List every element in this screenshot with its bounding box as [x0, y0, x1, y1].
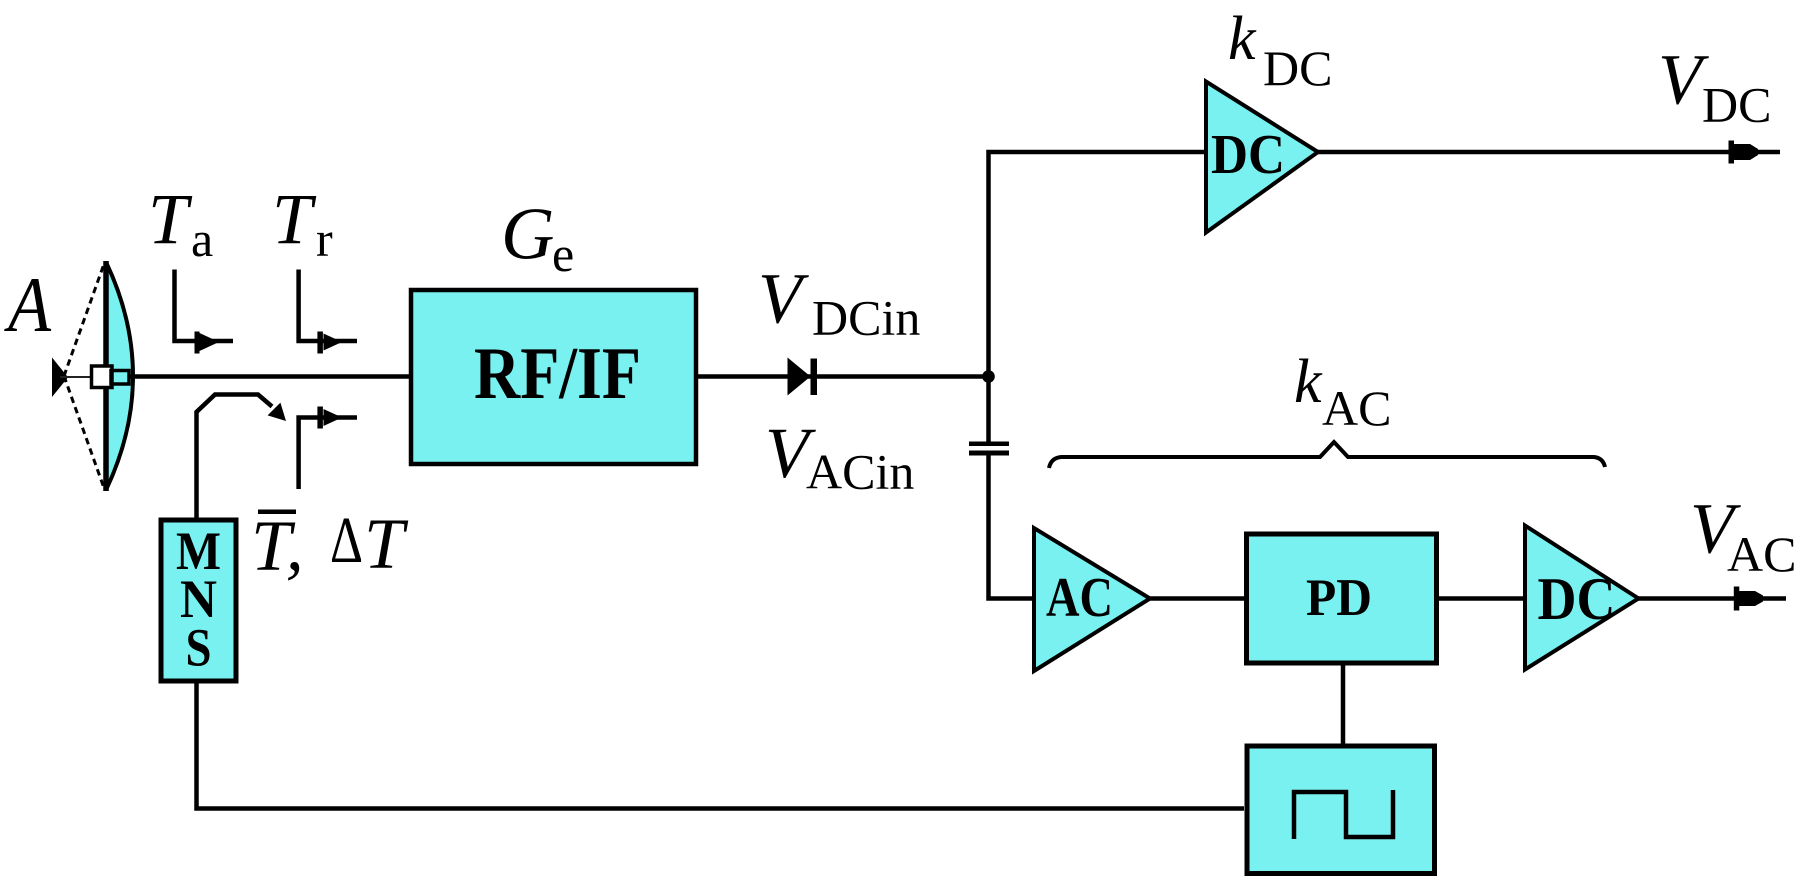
block PD — [1247, 534, 1437, 663]
wire feedback modulator to MNS — [197, 683, 1245, 809]
svg-text:DC: DC — [1538, 566, 1616, 632]
svg-text:V: V — [758, 259, 809, 339]
antenna feed square — [92, 366, 113, 388]
wire capacitor to AC amp — [989, 456, 1037, 599]
brace kAC — [1049, 442, 1605, 468]
output arrow VDC — [1729, 141, 1735, 164]
Tbar injection wire — [299, 418, 357, 490]
wire AC to PD — [1150, 596, 1244, 601]
wire main line antenna to RF/IF — [129, 374, 409, 379]
wire PD to DC amp — [1438, 596, 1525, 601]
Ta injection arrow — [195, 332, 200, 354]
svg-text:e: e — [552, 226, 574, 282]
svg-text:T: T — [364, 504, 409, 584]
svg-text:RF/IF: RF/IF — [474, 333, 641, 415]
svg-text:AC: AC — [1322, 380, 1391, 436]
block RF/IF — [411, 290, 696, 464]
diode D1 — [788, 358, 811, 396]
antenna feed line — [60, 376, 95, 378]
svg-text:T: T — [272, 179, 317, 259]
node junction — [982, 370, 995, 383]
svg-text:AC: AC — [1727, 526, 1796, 582]
svg-text:k: k — [1228, 5, 1257, 73]
Tr injection wire — [299, 270, 357, 342]
op-amp DC top — [1206, 82, 1318, 233]
Tbar injection arrow — [317, 407, 323, 429]
wire MNS bent arrow — [197, 395, 273, 521]
wire RF/IF to diode — [698, 374, 989, 379]
svg-text:r: r — [316, 211, 333, 267]
antenna focal dashed lines — [64, 264, 104, 376]
svg-text:ACin: ACin — [806, 444, 914, 500]
capacitor C1 — [969, 442, 1009, 447]
antenna feed triangle — [52, 358, 68, 398]
svg-text:AC: AC — [1046, 567, 1113, 629]
antenna dish — [106, 262, 133, 490]
wire DC amp to VAC output — [1639, 596, 1787, 601]
svg-text:A: A — [3, 261, 51, 348]
svg-text:T,: T, — [251, 505, 304, 585]
wire PD down to modulator — [1341, 666, 1346, 745]
Ta injection wire — [175, 270, 234, 342]
label Tbar, deltaT — [258, 510, 296, 515]
block MNS — [161, 520, 236, 681]
svg-text:PD: PD — [1306, 569, 1372, 627]
wire node up and to DC output — [989, 152, 1781, 377]
svg-text:Δ: Δ — [330, 504, 363, 577]
output arrow VAC — [1734, 587, 1740, 611]
square wave symbol — [1294, 790, 1393, 839]
block modulator (square wave generator) — [1247, 746, 1435, 874]
svg-text:S: S — [186, 618, 212, 678]
svg-text:k: k — [1294, 348, 1323, 416]
op-amp AC — [1034, 528, 1150, 671]
svg-text:DC: DC — [1211, 124, 1285, 186]
svg-text:a: a — [191, 211, 213, 267]
svg-text:G: G — [501, 194, 554, 276]
Tr injection arrow — [317, 332, 323, 354]
svg-text:DCin: DCin — [812, 290, 920, 346]
op-amp DC bottom — [1525, 526, 1639, 670]
svg-text:DC: DC — [1702, 77, 1771, 133]
svg-text:T: T — [148, 179, 193, 259]
svg-text:DC: DC — [1263, 40, 1332, 96]
